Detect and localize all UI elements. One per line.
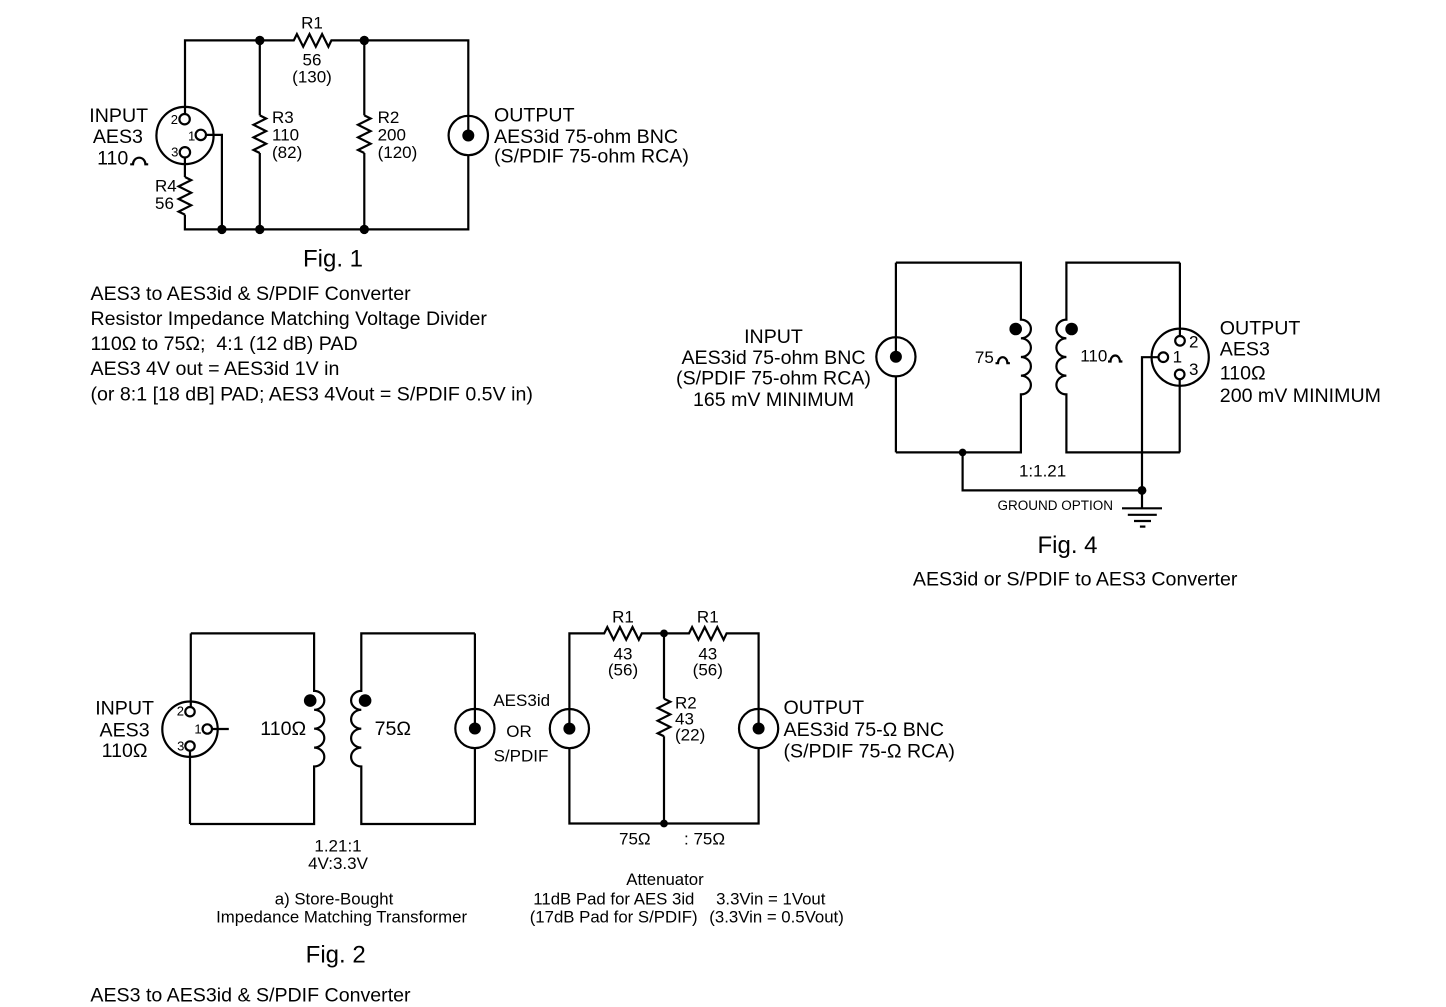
transformer primary winding fig2	[190, 633, 324, 824]
wire R3 branch lower fig1	[259, 153, 261, 229]
svg-text:3: 3	[171, 145, 178, 160]
svg-text:OUTPUT: OUTPUT	[1220, 318, 1301, 340]
XLR pin 1 fig4	[1159, 352, 1169, 362]
svg-text:75Ω: 75Ω	[375, 718, 411, 740]
svg-text:2: 2	[177, 704, 184, 719]
wire pin1 to ground junction fig4	[1142, 357, 1159, 490]
ground symbol bar2 fig4	[1128, 514, 1157, 516]
secondary phase dot fig4	[1065, 323, 1078, 336]
svg-text:AES3id 75-Ω BNC: AES3id 75-Ω BNC	[784, 719, 945, 741]
svg-text:2: 2	[1189, 333, 1198, 352]
svg-text:AES3: AES3	[100, 719, 150, 741]
resistor R3 fig1	[254, 115, 267, 153]
svg-text:3: 3	[1189, 360, 1198, 379]
XLR pin 2 fig4	[1175, 336, 1185, 346]
primary phase dot fig4	[1009, 323, 1022, 336]
svg-text:AES3 4V out = AES3id 1V in: AES3 4V out = AES3id 1V in	[91, 358, 340, 380]
svg-text:R1: R1	[612, 608, 634, 627]
svg-text:(130): (130)	[292, 68, 332, 87]
node dot attenuator top fig2	[660, 630, 668, 638]
resistor R2 fig1	[358, 115, 371, 153]
svg-text:(22): (22)	[675, 726, 705, 745]
svg-text:R2: R2	[378, 108, 400, 127]
svg-text:R4: R4	[155, 177, 177, 196]
wire pin3 to bottom rail fig4	[1179, 379, 1181, 452]
svg-text:AES3id 75-ohm BNC: AES3id 75-ohm BNC	[681, 347, 865, 369]
attenuator top rail with resistors R1 R1 fig2	[569, 627, 758, 729]
svg-text:75: 75	[975, 348, 994, 367]
svg-text:4V:3.3V: 4V:3.3V	[308, 854, 369, 873]
node dot ground junction fig4	[1138, 486, 1147, 495]
connector BNC output fig1 outer	[449, 116, 488, 155]
RCA output fig2 center dot	[469, 723, 481, 735]
ground symbol bar1 fig4	[1122, 507, 1162, 509]
svg-text:(56): (56)	[608, 661, 638, 680]
svg-text:75Ω: 75Ω	[619, 830, 651, 849]
wire R2 branch upper fig1	[363, 40, 365, 115]
svg-text:110Ω to 75Ω; 4:1 (12 dB) PAD: 110Ω to 75Ω; 4:1 (12 dB) PAD	[91, 333, 358, 355]
svg-text:200 mV MINIMUM: 200 mV MINIMUM	[1220, 385, 1381, 407]
ground stem fig4	[1141, 490, 1143, 508]
secondary phase dot fig2	[359, 694, 372, 707]
svg-text:OUTPUT: OUTPUT	[494, 105, 575, 127]
svg-text:165 mV MINIMUM: 165 mV MINIMUM	[693, 389, 854, 411]
wire attenuator bottom rail fig2	[569, 748, 758, 823]
connector BNC attenuator output outer	[739, 709, 778, 748]
BNC output fig1 center dot	[462, 130, 474, 142]
wire bottom rail fig1	[185, 155, 468, 229]
wire attenuator middle upper fig2	[663, 633, 665, 698]
svg-text:Impedance Matching Transformer: Impedance Matching Transformer	[216, 908, 467, 927]
wire left loop left side into BNC fig4	[895, 263, 897, 357]
pin1 stub wire fig2	[212, 728, 229, 730]
BNC attenuator input center dot	[563, 723, 575, 735]
svg-text:110: 110	[1080, 347, 1107, 366]
svg-text:(56): (56)	[693, 661, 723, 680]
BNC input fig4 center dot	[890, 351, 902, 363]
ohm hump symbol primary fig4	[996, 357, 1010, 363]
wire attenuator middle lower fig2	[663, 736, 665, 823]
svg-text:200: 200	[378, 126, 406, 145]
svg-text:S/PDIF: S/PDIF	[494, 746, 549, 765]
transformer secondary winding fig2	[351, 633, 475, 824]
node dot bottom rail fig4	[959, 449, 967, 457]
wire left loop top rail fig4	[896, 263, 1031, 453]
wire left loop left side lower fig4	[895, 376, 897, 452]
svg-text:AES3: AES3	[93, 126, 143, 148]
svg-text:INPUT: INPUT	[89, 105, 148, 127]
svg-text:a) Store-Bought: a) Store-Bought	[275, 890, 394, 909]
wire right loop right side into RCA fig2	[474, 633, 476, 728]
node dot top-left fig1	[255, 36, 264, 45]
wire R3 branch upper fig1	[259, 40, 261, 115]
resistor R4 fig1	[179, 177, 192, 215]
svg-text:INPUT: INPUT	[744, 326, 803, 348]
svg-text:(S/PDIF 75-ohm RCA): (S/PDIF 75-ohm RCA)	[676, 368, 871, 390]
node dot bottom R3 fig1	[255, 225, 264, 234]
wire pin3 to bottom rail fig2	[189, 751, 191, 824]
wire pin3 to R4 fig1	[184, 158, 186, 178]
svg-text:GROUND OPTION: GROUND OPTION	[998, 498, 1114, 513]
svg-text:110: 110	[97, 147, 128, 169]
svg-text:1: 1	[188, 129, 195, 144]
svg-text:(82): (82)	[272, 143, 302, 162]
connector XLR input fig2 outer circle	[162, 702, 217, 757]
svg-text:2: 2	[171, 112, 178, 127]
node dot attenuator bottom fig2	[660, 820, 668, 828]
svg-text:AES3id or S/PDIF to AES3 Conve: AES3id or S/PDIF to AES3 Converter	[913, 569, 1238, 591]
wire pin1 to bottom rail fig1	[206, 135, 222, 230]
svg-text:110Ω: 110Ω	[1220, 362, 1266, 384]
svg-text:(3.3Vin = 0.5Vout): (3.3Vin = 0.5Vout)	[709, 908, 844, 927]
svg-text:R1: R1	[301, 14, 323, 33]
svg-text:Fig. 1: Fig. 1	[303, 245, 363, 272]
svg-text:1: 1	[1173, 347, 1182, 366]
ohm hump symbol secondary fig4	[1108, 355, 1122, 361]
svg-text:3: 3	[177, 738, 184, 753]
svg-text:AES3 to AES3id & S/PDIF Conver: AES3 to AES3id & S/PDIF Converter	[90, 984, 411, 1006]
wire top rail with resistor R1 fig1	[185, 34, 468, 135]
svg-text:(120): (120)	[378, 143, 418, 162]
svg-text:R1: R1	[697, 608, 719, 627]
svg-text:11dB Pad for AES 3id: 11dB Pad for AES 3id	[533, 890, 694, 909]
ground symbol bar3 fig4	[1134, 520, 1151, 522]
svg-text:INPUT: INPUT	[95, 698, 154, 720]
svg-text:AES3 to AES3id & S/PDIF Conver: AES3 to AES3id & S/PDIF Converter	[91, 283, 412, 305]
connector BNC attenuator input outer	[550, 709, 589, 748]
svg-text:110: 110	[272, 126, 299, 145]
svg-text:(S/PDIF 75-ohm RCA): (S/PDIF 75-ohm RCA)	[494, 145, 689, 167]
svg-text:: 75Ω: : 75Ω	[684, 830, 725, 849]
wire left loop left side fig2	[190, 633, 192, 707]
wire R2 branch lower fig1	[363, 153, 365, 229]
primary phase dot fig2	[304, 694, 317, 707]
svg-text:Fig. 4: Fig. 4	[1037, 532, 1097, 559]
XLR pin 2 fig1	[179, 114, 189, 124]
svg-text:110Ω: 110Ω	[102, 740, 148, 762]
node dot bottom R2 fig1	[360, 225, 369, 234]
svg-text:OR: OR	[506, 722, 532, 741]
svg-text:(or 8:1 [18 dB] PAD; AES3 4Vou: (or 8:1 [18 dB] PAD; AES3 4Vout = S/PDIF…	[91, 383, 533, 405]
svg-text:OUTPUT: OUTPUT	[784, 697, 865, 719]
svg-text:1: 1	[194, 722, 201, 737]
connector RCA output fig2 outer	[455, 709, 494, 748]
connector XLR J1 fig1 outer circle	[156, 107, 213, 164]
svg-text:56: 56	[155, 194, 174, 213]
svg-text:1:1.21: 1:1.21	[1019, 462, 1066, 481]
ground symbol bar4 fig4	[1140, 525, 1146, 527]
svg-text:Attenuator: Attenuator	[626, 870, 704, 889]
svg-text:Fig. 2: Fig. 2	[306, 942, 366, 969]
svg-text:3.3Vin = 1Vout: 3.3Vin = 1Vout	[716, 890, 826, 909]
transformer secondary winding fig4	[1056, 263, 1180, 453]
svg-text:R3: R3	[272, 108, 294, 127]
ohm hump symbol fig1	[130, 158, 148, 165]
connector XLR output fig4 outer circle	[1152, 329, 1209, 386]
XLR pin 1 fig2	[203, 724, 212, 733]
XLR pin 3 fig4	[1175, 370, 1185, 380]
svg-text:(17dB Pad for S/PDIF): (17dB Pad for S/PDIF)	[530, 908, 698, 927]
svg-text:AES3id: AES3id	[493, 691, 550, 710]
svg-text:(S/PDIF 75-Ω RCA): (S/PDIF 75-Ω RCA)	[784, 741, 955, 763]
resistor R2 attenuator fig2	[658, 699, 671, 737]
XLR pin 3 fig2	[185, 741, 194, 750]
svg-text:AES3: AES3	[1220, 339, 1270, 361]
BNC attenuator output center dot	[753, 723, 765, 735]
svg-text:1.21:1: 1.21:1	[314, 837, 361, 856]
XLR pin 3 fig1	[180, 147, 190, 157]
wire right loop right side to pin2 fig4	[1179, 263, 1181, 336]
XLR pin 1 fig1	[196, 130, 206, 140]
node dot bottom pin1 fig1	[217, 225, 226, 234]
XLR pin 2 fig2	[185, 707, 194, 716]
svg-text:Resistor Impedance Matching Vo: Resistor Impedance Matching Voltage Divi…	[91, 308, 488, 330]
connector BNC input fig4 outer	[876, 337, 915, 376]
wire ground option link fig4	[963, 452, 1142, 490]
svg-text:110Ω: 110Ω	[260, 718, 306, 740]
node dot top-right fig1	[360, 36, 369, 45]
